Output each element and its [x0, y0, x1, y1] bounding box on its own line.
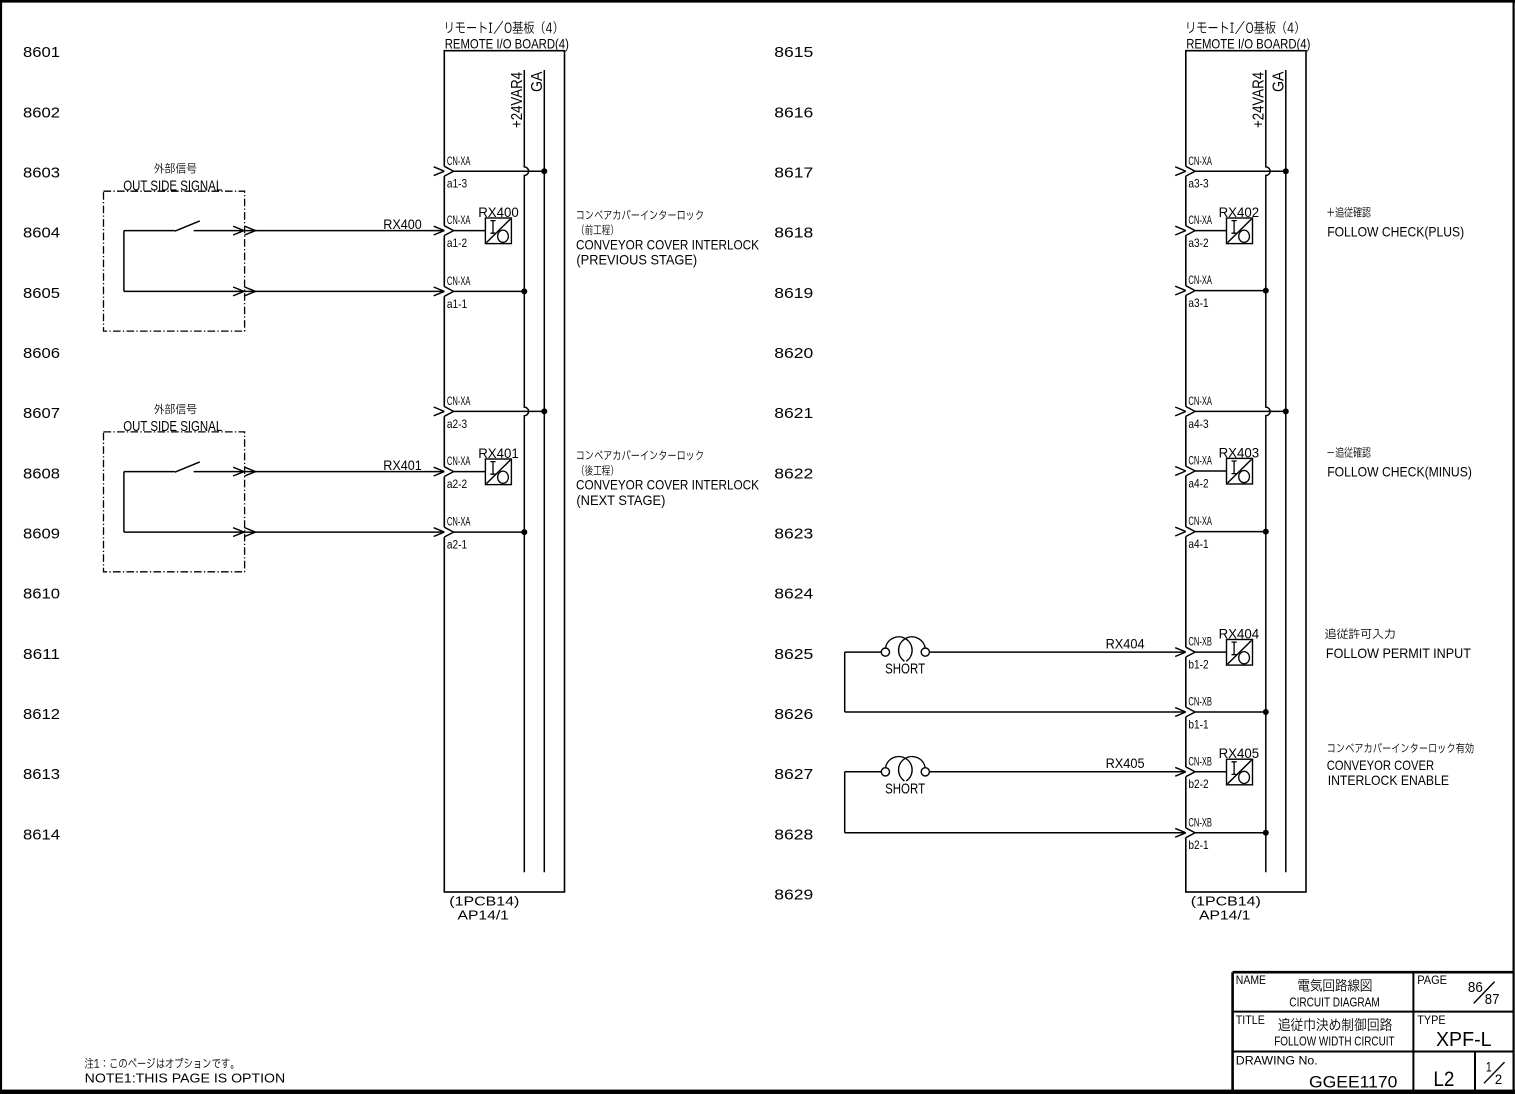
svg-text:FOLLOW CHECK(MINUS): FOLLOW CHECK(MINUS)	[1327, 464, 1472, 480]
svg-text:8613: 8613	[23, 766, 60, 783]
svg-text:NAME: NAME	[1236, 973, 1266, 987]
svg-text:a2-2: a2-2	[447, 477, 467, 491]
svg-text:DRAWING No.: DRAWING No.	[1236, 1054, 1318, 1068]
junction node a4-3/GA	[1283, 408, 1289, 414]
svg-text:SHORT: SHORT	[885, 661, 925, 678]
connector CN-XA right pin a3-3	[1185, 166, 1187, 176]
junction node b2-1/+24VAR4	[1263, 830, 1269, 836]
connector CN-XB pin b2-2	[1185, 767, 1187, 777]
wire RX404 to board	[929, 651, 1185, 653]
svg-text:RX401: RX401	[383, 457, 422, 473]
+24VAR4 power rail (hops over wires at GA rows)	[524, 70, 528, 872]
remote I/O board (left) box	[444, 51, 564, 892]
svg-text:8614: 8614	[23, 826, 60, 843]
svg-text:8621: 8621	[774, 405, 813, 422]
annotation: conveyor cover interlock (previous stage)	[577, 210, 703, 220]
connector CN-XA left pin a1-1	[443, 287, 445, 297]
wire a1-2 to RX400	[454, 230, 486, 232]
connector CN-XA left pin a1-2	[443, 226, 445, 236]
annotation: conveyor cover interlock enable	[1328, 743, 1473, 754]
board title left	[446, 21, 556, 34]
internal link wire (upper)	[123, 231, 125, 292]
wire a4-2 to RX403	[1195, 470, 1226, 472]
wire a4-1 to +24VAR4 rail	[1195, 531, 1266, 533]
svg-text:8602: 8602	[23, 104, 60, 121]
wire a3-3 to GA rail with hop	[1195, 170, 1286, 172]
connector CN-XA right pin a3-2	[1185, 226, 1187, 236]
SHORT jumper symbol (lower)	[845, 771, 882, 773]
svg-text:REMOTE I/O BOARD(4): REMOTE I/O BOARD(4)	[1186, 36, 1310, 52]
connector CN-XA right pin a3-1	[1185, 286, 1187, 296]
svg-text:+24VAR4: +24VAR4	[509, 72, 526, 128]
wire arrows at box edge y=291.4	[233, 287, 244, 296]
wire a1-3 to GA rail with hop over +24VAR4	[454, 170, 545, 172]
switch contact upper	[124, 230, 175, 232]
svg-text:8601: 8601	[23, 44, 60, 61]
wire a2-1 to +24VAR4 rail	[454, 531, 525, 533]
svg-text:a1-1: a1-1	[447, 297, 467, 311]
link wire (lower)	[844, 772, 846, 833]
wire a3-2 to RX402	[1195, 230, 1226, 232]
wire a3-1 to +24VAR4 rail	[1195, 290, 1266, 292]
junction node a4-1/+24VAR4	[1263, 529, 1269, 535]
junction node a1-3/GA	[541, 168, 547, 174]
svg-text:2: 2	[1495, 1071, 1502, 1087]
svg-text:a2-1: a2-1	[447, 538, 467, 552]
svg-text:TYPE: TYPE	[1417, 1013, 1445, 1027]
svg-text:RX405: RX405	[1106, 755, 1145, 771]
svg-text:b2-1: b2-1	[1188, 838, 1208, 852]
svg-text:CN-XA: CN-XA	[1188, 394, 1212, 408]
annotation: follow check plus	[1327, 207, 1370, 218]
svg-text:RX400: RX400	[383, 216, 422, 232]
label 外部信号 (lower)	[154, 404, 196, 415]
svg-text:CN-XA: CN-XA	[447, 213, 471, 227]
junction node a3-3/GA	[1283, 168, 1289, 174]
svg-text:a4-1: a4-1	[1188, 537, 1208, 551]
connector CN-XA right pin a4-2	[1185, 466, 1187, 476]
svg-text:FOLLOW WIDTH CIRCUIT: FOLLOW WIDTH CIRCUIT	[1274, 1034, 1394, 1049]
wire to board	[245, 290, 445, 292]
wire to board	[245, 230, 445, 232]
svg-text:8618: 8618	[774, 225, 813, 242]
svg-text:OUT SIDE SIGNAL: OUT SIDE SIGNAL	[123, 418, 222, 435]
svg-text:8625: 8625	[774, 646, 813, 663]
svg-text:SHORT: SHORT	[885, 780, 925, 797]
svg-text:8605: 8605	[23, 285, 60, 302]
svg-text:8615: 8615	[774, 44, 813, 61]
svg-text:PAGE: PAGE	[1417, 973, 1447, 987]
svg-text:CN-XA: CN-XA	[447, 394, 471, 408]
svg-text:a4-2: a4-2	[1188, 476, 1208, 490]
SHORT jumper symbol (upper)	[845, 651, 882, 653]
annotation: conveyor cover interlock (next stage)	[577, 450, 703, 460]
wire b2-1 to +24VAR4 rail	[1195, 832, 1266, 834]
svg-text:GGEE1170: GGEE1170	[1309, 1072, 1397, 1091]
svg-text:1: 1	[1486, 1058, 1492, 1074]
svg-text:AP14/1: AP14/1	[1199, 909, 1250, 923]
svg-text:a4-3: a4-3	[1188, 417, 1208, 431]
connector CN-XA left pin a2-1	[443, 527, 445, 537]
svg-text:TITLE: TITLE	[1236, 1013, 1265, 1027]
connector CN-XA left pin a2-2	[443, 467, 445, 477]
label 外部信号 (upper)	[154, 163, 196, 174]
wire a1-1 to +24VAR4 rail	[454, 290, 525, 292]
junction node a2-1/+24VAR4	[521, 529, 527, 535]
annotation: follow check minus	[1327, 447, 1370, 458]
note 1 japanese	[85, 1058, 234, 1069]
wire b1-2 to RX404	[1195, 651, 1226, 653]
wire arrows at box edge y=471.6	[233, 467, 244, 476]
svg-text:8603: 8603	[23, 164, 60, 181]
svg-text:8617: 8617	[774, 164, 813, 181]
svg-text:b1-2: b1-2	[1188, 658, 1208, 672]
svg-text:(1PCB14): (1PCB14)	[1191, 895, 1261, 909]
svg-text:8622: 8622	[774, 465, 813, 482]
svg-text:CN-XA: CN-XA	[447, 515, 471, 529]
svg-text:OUT SIDE SIGNAL: OUT SIDE SIGNAL	[123, 177, 222, 194]
svg-text:a3-1: a3-1	[1188, 296, 1208, 310]
svg-text:CONVEYOR COVER INTERLOCK: CONVEYOR COVER INTERLOCK	[576, 236, 760, 252]
svg-text:a1-3: a1-3	[447, 177, 467, 191]
wire b1-1 to +24VAR4 rail	[1195, 711, 1266, 713]
svg-text:CONVEYOR COVER: CONVEYOR COVER	[1327, 757, 1434, 773]
svg-text:CONVEYOR COVER INTERLOCK: CONVEYOR COVER INTERLOCK	[576, 477, 760, 493]
svg-text:CN-XA: CN-XA	[447, 154, 471, 168]
wire arrows at box edge y=532.1	[233, 528, 244, 537]
svg-text:a2-3: a2-3	[447, 417, 467, 431]
connector CN-XA left pin a1-3	[443, 166, 445, 176]
junction node a2-3/GA	[541, 408, 547, 414]
wire arrows at box edge y=230.6	[233, 226, 244, 235]
GA rail	[1285, 70, 1287, 872]
svg-text:CN-XB: CN-XB	[1188, 695, 1212, 709]
svg-text:8629: 8629	[774, 887, 813, 904]
wire to board	[245, 471, 445, 473]
svg-text:8610: 8610	[23, 586, 60, 603]
svg-text:CN-XB: CN-XB	[1188, 635, 1212, 649]
svg-text:REMOTE I/O BOARD(4): REMOTE I/O BOARD(4)	[445, 36, 569, 52]
svg-text:XPF-L: XPF-L	[1436, 1029, 1492, 1051]
svg-text:86: 86	[1468, 979, 1483, 996]
svg-text:CN-XA: CN-XA	[1188, 273, 1212, 287]
svg-text:8608: 8608	[23, 465, 60, 482]
wire a2-2 to RX401	[454, 471, 486, 473]
svg-text:NOTE1:THIS PAGE IS OPTION: NOTE1:THIS PAGE IS OPTION	[85, 1071, 285, 1086]
svg-text:INTERLOCK ENABLE: INTERLOCK ENABLE	[1328, 772, 1449, 788]
svg-text:RX404: RX404	[1106, 636, 1145, 652]
svg-text:CN-XA: CN-XA	[1188, 154, 1212, 168]
wire b2-2 to RX405	[1195, 771, 1226, 773]
svg-text:8604: 8604	[23, 225, 60, 242]
switch contact lower	[124, 471, 175, 473]
svg-text:CN-XA: CN-XA	[1188, 213, 1212, 227]
outside signal dashed box (upper)	[104, 191, 245, 331]
svg-text:8612: 8612	[23, 706, 60, 723]
svg-text:a3-3: a3-3	[1188, 177, 1208, 191]
link wire (upper)	[844, 652, 846, 712]
junction node a3-1/+24VAR4	[1263, 288, 1269, 294]
svg-text:CN-XB: CN-XB	[1188, 754, 1212, 768]
svg-text:GA: GA	[1270, 71, 1287, 92]
svg-text:(NEXT STAGE): (NEXT STAGE)	[576, 492, 665, 508]
svg-text:CN-XA: CN-XA	[1188, 454, 1212, 468]
title block frame	[1233, 972, 1513, 1091]
wire to board	[245, 531, 445, 533]
svg-text:L2: L2	[1433, 1068, 1454, 1091]
svg-text:8623: 8623	[774, 526, 813, 543]
internal link wire (lower)	[123, 472, 125, 532]
connector CN-XB pin b2-1	[1185, 828, 1187, 838]
+24VAR4 power rail (hops over wires at GA rows)	[1266, 70, 1270, 872]
svg-text:CN-XA: CN-XA	[447, 274, 471, 288]
connector CN-XB pin b1-2	[1185, 647, 1187, 657]
annotation: follow permit input	[1325, 628, 1394, 639]
svg-text:CN-XA: CN-XA	[1188, 514, 1212, 528]
connector CN-XA right pin a4-1	[1185, 527, 1187, 537]
wire a2-3 to GA rail with hop over +24VAR4	[454, 410, 545, 412]
svg-text:AP14/1: AP14/1	[458, 909, 509, 923]
svg-text:8609: 8609	[23, 526, 60, 543]
outside signal dashed box (lower)	[104, 432, 245, 572]
svg-text:CIRCUIT DIAGRAM: CIRCUIT DIAGRAM	[1289, 995, 1379, 1010]
svg-text:8611: 8611	[23, 646, 60, 663]
GA rail	[543, 70, 545, 872]
svg-text:FOLLOW PERMIT INPUT: FOLLOW PERMIT INPUT	[1326, 645, 1471, 661]
svg-text:b2-2: b2-2	[1188, 777, 1208, 791]
svg-text:CN-XB: CN-XB	[1188, 815, 1212, 829]
svg-text:a1-2: a1-2	[447, 236, 467, 250]
connector CN-XA left pin a2-3	[443, 407, 445, 417]
svg-text:a3-2: a3-2	[1188, 236, 1208, 250]
svg-text:(1PCB14): (1PCB14)	[449, 895, 519, 909]
svg-text:FOLLOW CHECK(PLUS): FOLLOW CHECK(PLUS)	[1327, 224, 1464, 240]
svg-text:8606: 8606	[23, 345, 60, 362]
svg-text:b1-1: b1-1	[1188, 717, 1208, 731]
svg-text:8628: 8628	[774, 826, 813, 843]
svg-text:8616: 8616	[774, 104, 813, 121]
svg-text:8624: 8624	[774, 586, 813, 603]
svg-text:CN-XA: CN-XA	[447, 454, 471, 468]
svg-text:+24VAR4: +24VAR4	[1250, 72, 1267, 128]
remote I/O board (right) box	[1186, 51, 1306, 892]
svg-text:8607: 8607	[23, 405, 60, 422]
board title right	[1188, 21, 1298, 34]
svg-text:8627: 8627	[774, 766, 813, 783]
svg-text:87: 87	[1485, 991, 1500, 1008]
svg-text:GA: GA	[529, 71, 546, 92]
svg-text:8626: 8626	[774, 706, 813, 723]
wire a4-3 to GA rail with hop	[1195, 410, 1286, 412]
connector CN-XA right pin a4-3	[1185, 407, 1187, 417]
wire RX405 to board	[929, 771, 1185, 773]
svg-text:(PREVIOUS STAGE): (PREVIOUS STAGE)	[576, 252, 697, 268]
junction node b1-1/+24VAR4	[1263, 709, 1269, 715]
junction node a1-1/+24VAR4	[521, 288, 527, 294]
svg-text:8620: 8620	[774, 345, 813, 362]
svg-text:8619: 8619	[774, 285, 813, 302]
connector CN-XB pin b1-1	[1185, 707, 1187, 717]
